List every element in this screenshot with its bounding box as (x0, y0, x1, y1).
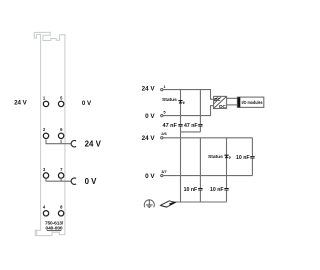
contact 2 (43, 133, 48, 138)
svg-text:10 nF: 10 nF (184, 187, 198, 193)
wire contact 6 stub (60, 140, 62, 144)
svg-text:DC: DC (214, 97, 221, 102)
svg-text:0 V: 0 V (145, 173, 155, 180)
wire 24V field rail (163, 137, 252, 139)
wire vertical field LED / 10nF branch (226, 138, 228, 202)
wire vertical field supply 10nF across (251, 138, 253, 176)
wire vertical 24V 47nF branch (199, 90, 201, 132)
contact 6 (58, 133, 63, 138)
wire DC/DC output bottom (227, 104, 238, 106)
svg-text:1: 1 (163, 84, 166, 89)
node 1 (161, 88, 163, 90)
svg-text:24 V: 24 V (14, 100, 28, 107)
underline order number (47, 230, 61, 232)
svg-text:I/O modules: I/O modules (242, 100, 264, 105)
svg-text:0 V: 0 V (85, 177, 98, 186)
svg-text:0 V: 0 V (82, 100, 92, 107)
contact 3 (43, 173, 48, 178)
DIN rail icon (161, 201, 176, 207)
svg-text:47 nF: 47 nF (163, 123, 178, 129)
capacitor C3 10nF (198, 189, 202, 191)
svg-text:1: 1 (43, 95, 46, 100)
wire 0V field rail (163, 175, 252, 177)
svg-text:3: 3 (43, 167, 46, 172)
svg-text:10 nF: 10 nF (236, 155, 250, 161)
capacitor C2 47nF (198, 124, 202, 126)
svg-text:7: 7 (60, 167, 63, 172)
node 3/7 (161, 174, 163, 176)
svg-text:Status: Status (208, 154, 223, 160)
capacitor C1 47nF (178, 124, 182, 126)
svg-text:10 nF: 10 nF (210, 187, 224, 193)
wire contact 2 stub (45, 140, 47, 144)
wire vertical system LED / 47nF branch (180, 90, 182, 202)
wire vertical 24V field 10nF branch (199, 138, 201, 202)
contact 5 (58, 101, 63, 106)
contact 4 (43, 211, 48, 216)
wire 24V system rail to DC/DC (163, 90, 213, 100)
DC/DC converter U1 (214, 96, 227, 108)
wire contact 3 stub (45, 178, 47, 181)
module housing foot inner wall (36, 230, 38, 235)
svg-text:6: 6 (60, 127, 63, 132)
plug symbol 0V feed (71, 178, 76, 184)
contact 1 (43, 101, 48, 106)
wire contact 7 stub (60, 178, 62, 181)
LED D1 system status (178, 100, 182, 102)
wire 24V feed row (46, 143, 72, 145)
wire earth bus (173, 201, 227, 203)
LED D2 field status (224, 154, 228, 156)
svg-text:3/7: 3/7 (161, 169, 167, 174)
contact 7 (58, 173, 63, 178)
svg-text:Status: Status (162, 97, 177, 103)
svg-text:47 nF: 47 nF (184, 123, 198, 129)
svg-text:24 V: 24 V (142, 86, 156, 93)
wire 47nF common bus (181, 131, 201, 133)
svg-text:2/6: 2/6 (161, 131, 167, 136)
svg-text:DC: DC (219, 104, 226, 110)
ground symbol (148, 199, 150, 205)
svg-text:5: 5 (60, 95, 63, 100)
contact 8 (58, 211, 63, 216)
node 2/6 (161, 137, 163, 139)
wire DC/DC output top (227, 97, 238, 99)
I/O modules block (237, 97, 263, 107)
svg-text:24 V: 24 V (142, 135, 156, 142)
svg-text:2: 2 (43, 127, 46, 132)
svg-text:0 V: 0 V (145, 113, 155, 120)
module housing outline 750-613 (34, 32, 65, 235)
capacitor C4 10nF (224, 189, 228, 191)
svg-text:5: 5 (163, 109, 166, 114)
svg-text:8: 8 (60, 205, 63, 210)
capacitor C5 10nF (250, 156, 254, 158)
node 5 (161, 114, 163, 116)
svg-text:4: 4 (43, 205, 46, 210)
wire 0V system rail to DC/DC (163, 106, 213, 116)
svg-text:24 V: 24 V (85, 139, 102, 148)
wire 0V feed row (46, 180, 72, 182)
plug symbol 24V feed (71, 141, 76, 147)
